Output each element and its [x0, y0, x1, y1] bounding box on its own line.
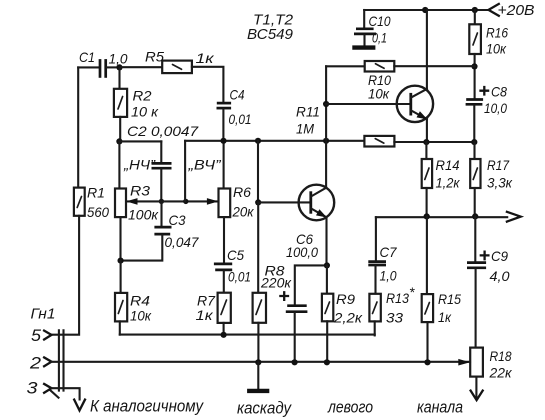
svg-text:К аналогичному: К аналогичному	[90, 398, 205, 416]
junction T1 collector line on row	[323, 138, 329, 144]
potentiometer R6	[219, 141, 231, 263]
potentiometer R18	[470, 348, 483, 399]
junction C2/C3 on wiper line	[159, 199, 164, 204]
R18 wiper arrowhead	[458, 359, 470, 366]
wire mid bus R4-R7-R13	[120, 334, 375, 336]
wire ВЧ branch vertical	[184, 141, 186, 202]
svg-text:0,01: 0,01	[228, 269, 251, 285]
capacitor C4	[217, 103, 232, 141]
output arrowhead right	[507, 212, 521, 222]
wire tone network row to R11	[185, 140, 364, 142]
junction wiper/ВЧ branch	[183, 199, 188, 204]
svg-text:каскаду: каскаду	[237, 400, 293, 418]
junction R14/R15/C7 row	[424, 213, 430, 219]
potentiometer R3	[115, 141, 126, 260]
resistor R7	[218, 293, 231, 335]
svg-text:R3: R3	[130, 183, 150, 199]
transistor T1	[299, 185, 335, 221]
R3 wiper arrowhead	[126, 198, 138, 205]
junction T2 base on collector line	[323, 101, 329, 107]
svg-text:1М: 1М	[296, 121, 314, 137]
cascade arrow down	[74, 400, 85, 411]
svg-text:Гн1: Гн1	[31, 306, 56, 323]
svg-text:100,0: 100,0	[286, 244, 318, 260]
svg-text:0,047: 0,047	[165, 234, 200, 250]
wire pin 3 to lower cascade	[52, 388, 80, 399]
pin 5 arrowhead	[44, 331, 51, 340]
svg-text:R2: R2	[133, 88, 152, 104]
junction C4/R6 on row	[220, 138, 226, 144]
svg-text:R11: R11	[296, 104, 320, 120]
C6 plus sign	[280, 292, 288, 300]
pin 2 arrowhead	[44, 357, 51, 366]
svg-text:С8: С8	[491, 84, 507, 100]
svg-text:С7: С7	[380, 244, 398, 260]
svg-text:1к: 1к	[438, 309, 452, 325]
junction R17/C9 row	[472, 213, 478, 219]
resistor R16	[469, 24, 481, 54]
wire R5 to C4 corner	[192, 67, 224, 102]
svg-text:С2 0,0047: С2 0,0047	[127, 123, 199, 139]
capacitor C7	[368, 217, 386, 294]
resistor R4	[115, 261, 127, 335]
junction R9 on bus	[324, 359, 330, 365]
junction T1 emitter / C6 / R9	[324, 262, 330, 268]
svg-text:R13: R13	[386, 290, 409, 306]
svg-text:0,01: 0,01	[229, 111, 252, 127]
resistor R9	[322, 265, 333, 362]
junction R3 bottom / C3 / R4	[118, 258, 124, 264]
svg-text:„НЧ”: „НЧ”	[123, 157, 156, 173]
wire output row	[376, 216, 507, 218]
svg-text:10к: 10к	[130, 308, 152, 324]
svg-text:1к: 1к	[196, 307, 215, 323]
capacitor C10	[354, 10, 376, 45]
svg-text:„ВЧ”: „ВЧ”	[187, 157, 222, 173]
wire T1 collector vertical to R10/R11	[325, 66, 327, 187]
svg-text:3: 3	[27, 380, 39, 398]
junction on rail at T2 collector	[422, 7, 428, 13]
wiper line R3 to R6	[127, 200, 218, 202]
resistor R14	[422, 142, 432, 216]
junction R8 / ground symbol on bus	[255, 359, 261, 365]
svg-text:R4: R4	[130, 293, 150, 309]
svg-text:2: 2	[29, 355, 41, 373]
wire T2 base	[326, 103, 411, 105]
wire T1 base	[258, 201, 311, 203]
svg-text:ВС549: ВС549	[247, 26, 294, 43]
capacitor C5	[214, 264, 232, 293]
junction C8 / R17	[471, 139, 477, 145]
junction R15 on bus	[424, 359, 430, 365]
resistor R5	[162, 61, 192, 74]
junction R2/R3/C2	[116, 138, 122, 144]
wire R16 to C8	[474, 54, 476, 98]
connector Гн1 double line	[50, 330, 64, 397]
wire rail to R16	[474, 10, 476, 24]
svg-text:1,0: 1,0	[380, 268, 397, 284]
svg-text:+20В: +20В	[498, 2, 535, 19]
svg-text:С3: С3	[169, 212, 186, 228]
capacitor C9 (electrolytic)	[467, 216, 486, 347]
svg-text:канала: канала	[417, 399, 463, 417]
wire T1 emitter down	[325, 217, 327, 265]
wire T2 emitter down	[426, 119, 428, 142]
wire T2 collector to rail	[426, 10, 428, 89]
wire C1 node to R5	[120, 66, 163, 68]
capacitor C1	[78, 59, 119, 78]
svg-text:R17: R17	[487, 157, 510, 173]
svg-text:R1: R1	[87, 185, 105, 201]
C8 plus sign	[481, 87, 489, 95]
svg-text:10,0: 10,0	[484, 100, 507, 116]
junction R10/R16/C8 node	[471, 63, 477, 69]
svg-text:1,0: 1,0	[109, 51, 128, 67]
svg-text:3,3к: 3,3к	[487, 174, 513, 190]
svg-text:R15: R15	[438, 291, 461, 307]
junction T1 base / R8	[255, 199, 261, 205]
svg-text:С1: С1	[79, 49, 95, 65]
svg-text:R6: R6	[233, 184, 251, 200]
svg-text:20к: 20к	[232, 204, 255, 220]
svg-text:R18: R18	[490, 348, 512, 364]
R6 wiper arrowhead	[207, 198, 219, 205]
transistor T2	[397, 86, 433, 122]
resistor R15	[422, 216, 433, 362]
svg-text:С4: С4	[230, 87, 245, 103]
svg-text:R5: R5	[145, 49, 164, 65]
svg-text:10к: 10к	[368, 86, 390, 102]
svg-text:100к: 100к	[128, 207, 159, 223]
resistor R2	[114, 67, 127, 141]
R18 output arrow down	[471, 391, 483, 401]
junction C1/R2/R5	[116, 64, 122, 70]
svg-text:С5: С5	[227, 247, 244, 263]
svg-text:10 к: 10 к	[131, 104, 159, 120]
svg-text:10к: 10к	[486, 41, 507, 57]
svg-text:R14: R14	[436, 157, 460, 173]
svg-text:4,0: 4,0	[490, 268, 510, 284]
svg-text:С10: С10	[369, 13, 391, 29]
svg-text:R16: R16	[486, 25, 508, 41]
svg-text:33: 33	[386, 310, 403, 326]
resistor R11	[364, 136, 474, 147]
resistor R13	[369, 294, 380, 336]
svg-text:левого: левого	[327, 399, 373, 417]
wire +20V supply rail	[364, 9, 488, 11]
wire T1 base branch vertical	[257, 141, 259, 203]
svg-text:5: 5	[31, 327, 42, 345]
svg-text:560: 560	[87, 204, 109, 220]
wire ground bus (pin 2 row)	[52, 361, 470, 363]
resistor R10	[326, 61, 474, 72]
svg-text:2,2к: 2,2к	[333, 310, 364, 326]
junction R7 on mid bus	[221, 332, 227, 338]
resistor R8	[253, 202, 266, 362]
capacitor C6 (electrolytic)	[286, 265, 327, 362]
svg-text:0,1: 0,1	[372, 30, 387, 46]
capacitor C8 (electrolytic)	[466, 100, 484, 143]
capacitor C2	[152, 141, 172, 201]
junction T2 emitter / R11 / R14	[423, 139, 429, 145]
C9 plus sign	[481, 252, 489, 260]
svg-text:*: *	[409, 284, 415, 300]
resistor R17	[470, 142, 480, 216]
junction on rail at R16	[472, 7, 478, 13]
capacitor C3	[121, 201, 172, 260]
ground symbol	[247, 362, 269, 391]
svg-text:R9: R9	[336, 291, 355, 307]
svg-text:22к: 22к	[489, 365, 513, 381]
svg-text:1,2к: 1,2к	[436, 174, 461, 190]
chassis ground bar under C10	[352, 45, 375, 49]
resistor R1	[52, 67, 85, 334]
junction C6 on bus	[292, 359, 298, 365]
svg-text:220к: 220к	[260, 275, 292, 291]
svg-text:С9: С9	[491, 248, 508, 264]
pin 3 arrowhead	[44, 384, 51, 393]
junction T1 base branch on row	[255, 138, 261, 144]
+20V input arrowhead	[489, 4, 499, 16]
wire R2 node to C2	[119, 140, 161, 142]
svg-text:1к: 1к	[196, 50, 216, 66]
